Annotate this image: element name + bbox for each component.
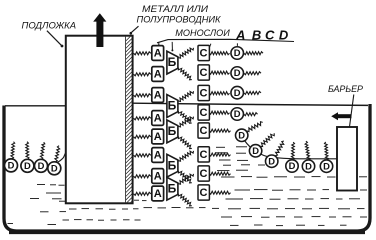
substrate (podlozhka) plate bbox=[66, 36, 133, 204]
molecule A2 head bbox=[152, 67, 164, 82]
left floating molecule D-L1 head bbox=[5, 159, 18, 172]
tail zigzag substrate to A6 bbox=[134, 154, 151, 157]
floating molecule D7 tail bbox=[275, 141, 284, 156]
floating molecule D8 head bbox=[286, 160, 298, 172]
tail zigzag right of D4 bbox=[244, 113, 258, 116]
upward pull arrow bbox=[93, 13, 106, 47]
water dashes right pool lower bbox=[212, 177, 367, 226]
water dashes right pool upper bbox=[215, 147, 265, 171]
svg-text:A: A bbox=[154, 171, 162, 183]
svg-text:БАРЬЕР: БАРЬЕР bbox=[328, 84, 363, 94]
svg-text:D: D bbox=[252, 145, 259, 156]
svg-text:D: D bbox=[234, 47, 241, 58]
tail zigzag right of D3 bbox=[244, 91, 261, 94]
molecule C8 head bbox=[198, 185, 209, 200]
svg-text:A: A bbox=[154, 188, 162, 200]
svg-text:C: C bbox=[200, 187, 208, 199]
left floating molecule D-L1 tail bbox=[11, 142, 15, 159]
tail zigzag substrate to A1 bbox=[134, 52, 151, 55]
tail zigzag substrate to A4 bbox=[134, 117, 151, 120]
tail zigzag right of D2 bbox=[244, 72, 261, 75]
water dashes under film bbox=[134, 200, 206, 208]
svg-text:D: D bbox=[234, 67, 241, 78]
svg-text:Б: Б bbox=[168, 99, 177, 113]
molecule C3 head bbox=[198, 85, 209, 100]
left floating molecule D-L2 head bbox=[21, 159, 34, 172]
water surface meniscus left of substrate bbox=[46, 153, 66, 167]
molecule C4 head bbox=[198, 105, 209, 120]
svg-text:D: D bbox=[38, 160, 45, 171]
tail zigzag right of C8 bbox=[209, 191, 230, 194]
svg-text:A: A bbox=[235, 27, 245, 42]
water back rim line left bbox=[5, 105, 65, 107]
svg-text:C: C bbox=[200, 48, 208, 60]
molecule C1 head bbox=[198, 45, 209, 60]
svg-text:D: D bbox=[323, 160, 330, 171]
molecule D2 head bbox=[231, 67, 244, 80]
svg-text:D: D bbox=[51, 163, 58, 174]
left floating molecule D-L4 head bbox=[48, 162, 61, 175]
molecule C7 head bbox=[198, 166, 209, 181]
molecule B3 (trapezoid) with tails bbox=[167, 117, 194, 149]
metal/semiconductor hatched layer bbox=[126, 34, 133, 211]
molecule A3 head bbox=[152, 88, 164, 103]
left floating molecule D-L3 tail bbox=[40, 142, 44, 159]
molecule D4 head bbox=[231, 108, 244, 121]
tail zigzag substrate to A5 bbox=[134, 135, 151, 138]
molecule A4 head bbox=[152, 111, 164, 126]
floating molecule D6 head bbox=[249, 145, 261, 157]
svg-text:D: D bbox=[8, 160, 15, 171]
water dashes below substrate bbox=[63, 209, 141, 221]
svg-text:ПОДЛОЖКА: ПОДЛОЖКА bbox=[22, 20, 77, 30]
svg-text:D: D bbox=[268, 155, 275, 166]
svg-text:Б: Б bbox=[168, 55, 177, 69]
leader line barrier bbox=[350, 95, 354, 127]
molecule A1 head bbox=[152, 46, 164, 61]
svg-text:ПОЛУПРОВОДНИК: ПОЛУПРОВОДНИК bbox=[137, 14, 222, 24]
tail zigzag right of C7 bbox=[209, 172, 230, 175]
molecule B5 (trapezoid) with tails bbox=[167, 174, 194, 206]
left floating molecule D-L4 tail bbox=[55, 146, 60, 162]
tail zigzag right of C3 bbox=[209, 92, 229, 95]
svg-text:D: D bbox=[279, 27, 289, 42]
left floating molecule D-L2 tail bbox=[26, 142, 29, 160]
svg-text:C: C bbox=[200, 67, 208, 79]
svg-text:C: C bbox=[200, 149, 208, 161]
tail zigzag substrate to A3 bbox=[134, 94, 151, 97]
molecule C2 head bbox=[198, 65, 209, 80]
molecule C5 head bbox=[198, 123, 209, 138]
svg-text:МОНОСЛОИ: МОНОСЛОИ bbox=[175, 28, 230, 38]
floating molecule D6 tail bbox=[260, 133, 274, 146]
leader drop to layer A bbox=[158, 42, 160, 45]
svg-text:C: C bbox=[200, 125, 208, 137]
leader line metall bbox=[131, 26, 139, 33]
molecule B4 (trapezoid) with tails bbox=[167, 151, 194, 183]
svg-text:Б: Б bbox=[168, 158, 177, 172]
floating molecule D9 tail bbox=[305, 141, 310, 160]
floating molecule D5 tail bbox=[247, 122, 263, 132]
molecule A8 head bbox=[152, 186, 164, 201]
svg-text:D: D bbox=[234, 87, 241, 98]
floating molecule D9 head bbox=[302, 160, 314, 172]
leader polyline monosloi with underline bbox=[157, 39, 294, 43]
svg-text:A: A bbox=[154, 131, 162, 143]
svg-text:D: D bbox=[234, 108, 241, 119]
svg-text:D: D bbox=[289, 160, 296, 171]
molecule C6 head bbox=[198, 147, 209, 162]
tail zigzag substrate to A7 bbox=[134, 175, 151, 178]
svg-text:D: D bbox=[238, 129, 245, 140]
svg-text:D: D bbox=[24, 160, 31, 171]
svg-text:A: A bbox=[154, 113, 162, 125]
molecule D1 head bbox=[231, 47, 244, 60]
svg-text:МЕТАЛЛ ИЛИ: МЕТАЛЛ ИЛИ bbox=[142, 4, 209, 14]
svg-text:C: C bbox=[200, 168, 208, 180]
barrier push arrow (left) bbox=[331, 112, 351, 120]
trough (Langmuir bath) outline bbox=[4, 104, 370, 231]
label A B C D bbox=[235, 27, 289, 42]
leader tick to layer D bbox=[236, 43, 238, 46]
water dashes left pool bbox=[8, 185, 67, 225]
svg-text:C: C bbox=[200, 88, 208, 100]
tail zigzag right of D1 bbox=[244, 52, 263, 55]
tail zigzag right of C1 bbox=[209, 52, 229, 55]
svg-text:A: A bbox=[154, 48, 162, 60]
tail zigzag substrate to A8 bbox=[134, 192, 151, 195]
leader drop to layer B bbox=[171, 42, 173, 50]
floating molecule D10 head bbox=[320, 160, 332, 172]
floating molecule D10 tail bbox=[325, 142, 329, 160]
barrier plate bbox=[337, 127, 357, 191]
svg-text:Б: Б bbox=[168, 124, 177, 138]
trough bottom thick line bbox=[9, 231, 365, 234]
svg-text:Б: Б bbox=[168, 181, 177, 195]
tail zigzag right of C5 bbox=[209, 129, 230, 132]
svg-text:A: A bbox=[154, 90, 162, 102]
svg-text:C: C bbox=[200, 107, 208, 119]
floating molecule D7 head bbox=[266, 155, 278, 167]
molecule A6 head bbox=[152, 148, 164, 163]
metal/semiconductor layer boundary bbox=[125, 37, 127, 203]
svg-text:A: A bbox=[154, 150, 162, 162]
molecule A5 head bbox=[152, 129, 164, 144]
tail zigzag right of C4 bbox=[209, 111, 229, 114]
svg-text:C: C bbox=[265, 27, 275, 42]
leader tick to layer C bbox=[210, 44, 211, 47]
molecule A7 head bbox=[152, 169, 164, 184]
floating molecule D8 tail bbox=[291, 142, 294, 160]
svg-text:A: A bbox=[154, 69, 162, 81]
water surface stub at left wall bbox=[4, 165, 8, 167]
floating molecule D5 head bbox=[236, 129, 248, 141]
tail zigzag right of C2 bbox=[209, 71, 229, 74]
tail zigzag right of C6 bbox=[209, 153, 230, 156]
svg-text:B: B bbox=[252, 27, 261, 42]
leader line podlozhka bbox=[47, 31, 62, 46]
water back rim line right bbox=[133, 103, 368, 105]
molecule B1 (trapezoid) with tails bbox=[167, 48, 194, 80]
water surface meniscus right bbox=[245, 141, 337, 159]
svg-text:D: D bbox=[305, 160, 312, 171]
tail zigzag substrate to A2 bbox=[134, 73, 151, 76]
left floating molecule D-L3 head bbox=[35, 159, 48, 172]
molecule B2 (trapezoid) with tails bbox=[167, 91, 194, 123]
molecule D3 head bbox=[231, 86, 244, 99]
